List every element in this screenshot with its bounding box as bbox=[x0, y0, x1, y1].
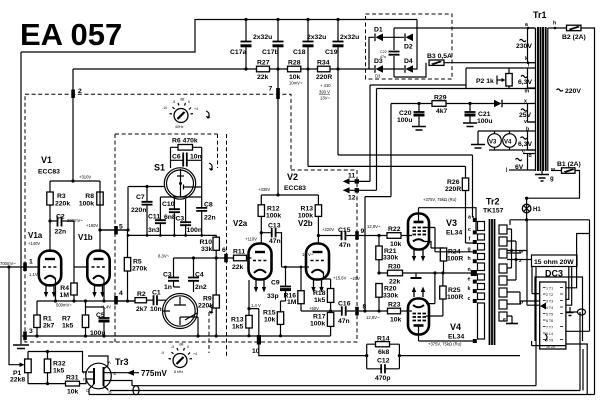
svg-text:Tr1: Tr1 bbox=[533, 10, 547, 20]
wire h to fuse B2 bbox=[548, 27, 567, 29]
svg-text:C18: C18 bbox=[293, 49, 306, 56]
svg-text:V4: V4 bbox=[504, 140, 512, 146]
svg-text:+15,6V: +15,6V bbox=[333, 276, 347, 281]
svg-text:1k5: 1k5 bbox=[314, 297, 326, 304]
ground heater bbox=[477, 131, 479, 144]
svg-text:-9: -9 bbox=[161, 351, 164, 355]
connector DC3 bbox=[540, 282, 566, 349]
rectifier dashed box bbox=[366, 14, 453, 79]
capacitor C17a bbox=[245, 20, 247, 70]
wire y220 row bbox=[510, 220, 590, 225]
svg-text:2k7: 2k7 bbox=[136, 306, 148, 313]
wire anode supply row bbox=[338, 69, 473, 155]
jack circle bbox=[578, 309, 586, 315]
pentode V4 inverted bbox=[408, 299, 429, 335]
resistor R21 bbox=[376, 246, 382, 260]
svg-text:220k: 220k bbox=[198, 303, 213, 310]
svg-text:R13: R13 bbox=[301, 206, 314, 213]
secondary ground e bbox=[511, 316, 513, 323]
heater arrows V1a bbox=[46, 286, 54, 293]
svg-text:h: h bbox=[468, 256, 471, 262]
svg-text:~20V: ~20V bbox=[350, 276, 360, 281]
svg-text:R7: R7 bbox=[62, 316, 71, 323]
resistor R26 bbox=[462, 178, 468, 191]
svg-text:2x32u: 2x32u bbox=[307, 34, 326, 41]
heater arrows V1b bbox=[95, 286, 103, 293]
wire C2 to V1b grid bbox=[74, 221, 87, 283]
svg-text:+335V: +335V bbox=[258, 187, 270, 192]
svg-text:C13: C13 bbox=[268, 223, 281, 230]
svg-text:10k: 10k bbox=[264, 317, 276, 324]
svg-text:C21: C21 bbox=[478, 111, 491, 118]
svg-text:C19: C19 bbox=[325, 49, 338, 56]
svg-text:R13: R13 bbox=[231, 317, 244, 324]
capacitor C21 bbox=[469, 104, 471, 123]
heater V4 circle bbox=[503, 134, 517, 148]
svg-text:47n: 47n bbox=[338, 318, 350, 325]
svg-text:12,8V~: 12,8V~ bbox=[367, 224, 381, 229]
svg-text:22k: 22k bbox=[232, 264, 244, 271]
resistor R16 bbox=[298, 291, 304, 304]
svg-text:S1: S1 bbox=[154, 163, 165, 173]
Tr2 primary winding bbox=[478, 222, 485, 340]
mech hook S1 bbox=[209, 163, 213, 170]
svg-text:1k5: 1k5 bbox=[62, 323, 74, 330]
resistor R22 bbox=[387, 233, 401, 239]
wire P1 top row bbox=[28, 352, 86, 373]
svg-text:R32: R32 bbox=[53, 361, 66, 368]
svg-text:EL34: EL34 bbox=[446, 230, 462, 237]
resistor R24 bbox=[440, 248, 446, 261]
svg-text:220R: 220R bbox=[445, 186, 461, 193]
svg-text:220n: 220n bbox=[131, 207, 147, 214]
svg-text:R1: R1 bbox=[43, 316, 52, 323]
svg-text:V3: V3 bbox=[489, 140, 497, 146]
wire V1b anode node5 bbox=[100, 192, 128, 251]
capacitor C2 bbox=[58, 217, 62, 227]
DC3 left wires bbox=[521, 220, 540, 305]
svg-text:R29: R29 bbox=[434, 95, 447, 102]
wire tone bottom rail bbox=[128, 235, 216, 237]
wire R5 bottom to cathode rail bbox=[118, 300, 135, 302]
svg-text:C9: C9 bbox=[271, 280, 280, 287]
svg-text:100k: 100k bbox=[310, 321, 325, 328]
svg-text:R8: R8 bbox=[85, 193, 94, 200]
svg-text:1k5: 1k5 bbox=[53, 368, 65, 375]
svg-text:+4: +4 bbox=[194, 107, 198, 111]
svg-text:V1: V1 bbox=[41, 155, 52, 165]
capacitor C22 bridge bbox=[389, 52, 400, 55]
svg-text:7: 7 bbox=[269, 86, 273, 93]
diode 25V rectifier bbox=[494, 100, 502, 108]
pentode V3 bbox=[408, 214, 429, 250]
svg-text:8: 8 bbox=[363, 304, 367, 311]
svg-text:V4: V4 bbox=[450, 322, 461, 332]
svg-text:C2: C2 bbox=[56, 214, 65, 221]
svg-text:22n: 22n bbox=[204, 215, 216, 222]
svg-text:9: 9 bbox=[361, 228, 365, 235]
svg-text:8 kHz: 8 kHz bbox=[174, 370, 183, 374]
diode D2 bbox=[406, 34, 414, 42]
svg-text:220k: 220k bbox=[55, 201, 70, 208]
svg-text:R3: R3 bbox=[57, 193, 66, 200]
svg-text:v: v bbox=[524, 119, 527, 125]
heater V3 circle bbox=[488, 134, 502, 148]
ground below C20 bbox=[412, 127, 426, 131]
resistor R31 bbox=[66, 381, 80, 386]
ground below C21 bbox=[463, 123, 477, 127]
svg-text:h: h bbox=[553, 21, 556, 27]
wire mains right edge bbox=[581, 28, 595, 395]
svg-text:11: 11 bbox=[348, 173, 355, 180]
heater arrows V2a bbox=[256, 280, 264, 288]
resistor R4 bbox=[71, 283, 77, 295]
node 10 bbox=[257, 335, 261, 345]
svg-text:230V: 230V bbox=[516, 43, 532, 50]
svg-text:a: a bbox=[468, 215, 471, 221]
potentiometer P1 bbox=[25, 359, 32, 373]
capacitor C19 bbox=[337, 20, 339, 70]
svg-text:47n: 47n bbox=[269, 238, 281, 245]
wire C9 R15 join bbox=[281, 300, 286, 302]
svg-text:R25: R25 bbox=[448, 287, 461, 294]
svg-text:V2a: V2a bbox=[233, 219, 248, 228]
svg-text:e: e bbox=[468, 277, 471, 283]
svg-text:+4: +4 bbox=[193, 352, 197, 356]
wire h tap junction bbox=[471, 270, 477, 276]
svg-text:Tr3: Tr3 bbox=[115, 357, 129, 367]
svg-text:ECC83: ECC83 bbox=[38, 169, 60, 176]
mains label bbox=[557, 89, 563, 91]
resistor R29 bbox=[432, 101, 446, 107]
svg-text:5 T5: 5 T5 bbox=[546, 313, 553, 317]
svg-text:D4: D4 bbox=[404, 58, 413, 65]
svg-text:D1: D1 bbox=[374, 27, 383, 34]
resistor R32 bbox=[44, 359, 50, 373]
svg-text:C10: C10 bbox=[162, 201, 175, 208]
svg-text:100n: 100n bbox=[187, 227, 203, 234]
wire Tr3 top A bbox=[88, 356, 108, 366]
treble knob bbox=[173, 354, 187, 368]
svg-text:R15: R15 bbox=[263, 310, 276, 317]
svg-text:ECC83: ECC83 bbox=[284, 185, 306, 192]
wire V2b anode C15 tap bbox=[318, 216, 341, 243]
node 9 bbox=[355, 231, 359, 240]
bus risers right bbox=[536, 267, 583, 391]
svg-text:+375V, 75kΩ (Ru): +375V, 75kΩ (Ru) bbox=[423, 197, 457, 202]
bass knob bbox=[174, 109, 188, 123]
svg-text:3 T3: 3 T3 bbox=[546, 300, 553, 304]
svg-text:100k: 100k bbox=[266, 213, 281, 220]
svg-text:33k: 33k bbox=[201, 246, 213, 253]
svg-text:6k8: 6k8 bbox=[378, 349, 390, 356]
svg-text:V1a: V1a bbox=[28, 231, 43, 240]
wire bridge right node bbox=[413, 20, 417, 70]
svg-text:270k: 270k bbox=[132, 266, 147, 273]
diode D3 bbox=[376, 65, 384, 73]
transformer Tr3 bbox=[86, 363, 112, 389]
svg-text:f: f bbox=[469, 237, 471, 243]
svg-text:C22: C22 bbox=[380, 50, 387, 54]
wire x row 25V supply bbox=[391, 103, 536, 105]
svg-text:-5: -5 bbox=[171, 345, 174, 349]
wire R30 row bbox=[379, 272, 473, 274]
wire fuse B3 to k bbox=[444, 62, 536, 64]
triode V2b bbox=[306, 244, 329, 280]
wire V1a anode / C2 row bbox=[50, 205, 74, 251]
svg-text:D3: D3 bbox=[375, 74, 381, 79]
svg-text:+160V: +160V bbox=[86, 223, 98, 228]
svg-text:4k7: 4k7 bbox=[436, 108, 448, 115]
resistor R7 bbox=[82, 315, 88, 328]
svg-text:P2 1k: P2 1k bbox=[476, 78, 494, 85]
svg-text:C5: C5 bbox=[96, 312, 105, 319]
svg-text:4 T4: 4 T4 bbox=[546, 306, 553, 310]
svg-text:6n8: 6n8 bbox=[164, 214, 176, 221]
svg-text:12: 12 bbox=[348, 195, 356, 202]
svg-text:n: n bbox=[468, 267, 471, 273]
svg-text:-5: -5 bbox=[172, 100, 175, 104]
svg-text:R20: R20 bbox=[384, 286, 397, 293]
junction dots B+ rail bbox=[244, 67, 247, 70]
svg-text:g: g bbox=[550, 176, 554, 182]
mech link dash treble bbox=[208, 312, 210, 353]
wire B1 loop to H1 bbox=[527, 171, 580, 199]
wire ground top rail bbox=[21, 20, 417, 53]
svg-text:TK157: TK157 bbox=[483, 208, 504, 215]
svg-text:C20: C20 bbox=[399, 110, 412, 117]
wire bus A from Tr3 bbox=[104, 381, 133, 386]
Tr2 taps bbox=[468, 215, 477, 344]
wire S1 lower row bbox=[160, 197, 201, 220]
svg-text:R11: R11 bbox=[233, 249, 245, 256]
svg-text:10mV~: 10mV~ bbox=[289, 81, 303, 86]
wire bus lines bbox=[89, 386, 595, 395]
wire bridge left node bbox=[369, 37, 374, 69]
svg-text:R26: R26 bbox=[447, 179, 460, 186]
svg-text:15 ohm 20W: 15 ohm 20W bbox=[534, 259, 574, 266]
input drop to P1 bbox=[9, 267, 20, 365]
svg-text:R5: R5 bbox=[133, 259, 142, 266]
wire node9 to R22 bbox=[359, 235, 387, 237]
svg-text:8,3V~: 8,3V~ bbox=[158, 254, 170, 259]
svg-text:H1: H1 bbox=[533, 207, 541, 213]
bus loop symbol bbox=[133, 386, 139, 395]
switch S2 bbox=[163, 294, 198, 329]
wire l row bbox=[370, 68, 536, 89]
svg-text:7 T7: 7 T7 bbox=[546, 326, 553, 330]
svg-text:k: k bbox=[525, 56, 528, 62]
heater arrows V2b bbox=[314, 280, 322, 288]
svg-text:22n: 22n bbox=[55, 229, 67, 236]
svg-text:R9: R9 bbox=[203, 296, 212, 303]
svg-text:10k: 10k bbox=[390, 241, 402, 248]
capacitor C1 bbox=[147, 299, 154, 301]
svg-text:R30: R30 bbox=[388, 264, 401, 271]
svg-text:14 V~: 14 V~ bbox=[302, 252, 314, 257]
svg-text:R18: R18 bbox=[313, 290, 326, 297]
speaker box 15ohm bbox=[532, 255, 578, 267]
resistor R28 bbox=[288, 66, 301, 72]
svg-text:100R: 100R bbox=[447, 256, 463, 263]
wire heater row c bbox=[489, 149, 536, 151]
svg-text:12,8V~: 12,8V~ bbox=[366, 315, 380, 320]
svg-text:33p: 33p bbox=[267, 293, 279, 300]
junction dots top rail bbox=[244, 18, 247, 21]
node 5 bbox=[114, 226, 118, 235]
svg-text:E: E bbox=[114, 371, 117, 376]
svg-text:C17b: C17b bbox=[262, 49, 279, 56]
svg-text:Tr2: Tr2 bbox=[486, 197, 500, 207]
svg-text:1,4 V: 1,4 V bbox=[251, 303, 261, 308]
svg-text:13V~: 13V~ bbox=[320, 96, 330, 101]
lamp H1 bbox=[526, 198, 528, 220]
svg-text:200mV~: 200mV~ bbox=[67, 218, 83, 223]
svg-text:3: 3 bbox=[29, 328, 33, 335]
resistor R20 bbox=[376, 284, 382, 298]
svg-text:V2b: V2b bbox=[298, 219, 313, 228]
svg-text:25V: 25V bbox=[519, 112, 532, 119]
wire V2 supply split bbox=[261, 195, 318, 205]
resistor R14 bbox=[376, 342, 390, 347]
svg-text:22k8: 22k8 bbox=[10, 377, 25, 384]
mech hook S2 bbox=[209, 306, 213, 313]
wire V3 anode row bbox=[419, 208, 477, 233]
Tr2 core bbox=[490, 219, 495, 345]
svg-text:+50V: +50V bbox=[309, 306, 319, 311]
fuse B2 bbox=[567, 25, 582, 31]
svg-text:40Hz: 40Hz bbox=[175, 125, 184, 129]
svg-text:1M: 1M bbox=[287, 299, 297, 306]
svg-text:220V: 220V bbox=[565, 88, 581, 95]
svg-text:1M: 1M bbox=[60, 292, 70, 299]
svg-text:V1b: V1b bbox=[78, 233, 93, 242]
svg-text:-10: -10 bbox=[162, 106, 167, 110]
ground g below core bbox=[541, 171, 543, 174]
diode D4 bbox=[406, 65, 414, 73]
svg-text:R22: R22 bbox=[388, 226, 401, 233]
svg-text:R31: R31 bbox=[66, 375, 79, 382]
svg-text:500mV~: 500mV~ bbox=[56, 303, 72, 308]
svg-text:2x32u: 2x32u bbox=[253, 34, 272, 41]
svg-text:R23: R23 bbox=[388, 302, 401, 309]
svg-text:V3: V3 bbox=[446, 218, 457, 228]
svg-text:47n: 47n bbox=[380, 55, 386, 59]
triode V1a bbox=[39, 251, 61, 286]
wire left ground drop bbox=[20, 52, 22, 344]
resistor R2 bbox=[135, 298, 147, 303]
svg-text:100k: 100k bbox=[79, 201, 94, 208]
wire node8 row to R23 bbox=[347, 310, 388, 312]
wire B+ rail bbox=[73, 68, 369, 70]
svg-text:D2: D2 bbox=[404, 44, 413, 51]
svg-text:393 V: 393 V bbox=[319, 90, 330, 95]
svg-text:b: b bbox=[526, 127, 529, 133]
fuse B3 bbox=[429, 60, 444, 65]
svg-text:C15: C15 bbox=[338, 227, 351, 234]
resistor R8 bbox=[97, 192, 103, 205]
svg-text:10n: 10n bbox=[150, 306, 162, 313]
cathode tie bar bbox=[415, 273, 417, 278]
svg-text:700mV~: 700mV~ bbox=[0, 261, 16, 266]
svg-text:6,3V: 6,3V bbox=[518, 79, 532, 86]
wire AC bottom to fuse B3 bbox=[394, 63, 426, 77]
svg-text:+310V: +310V bbox=[79, 175, 91, 180]
svg-text:c: c bbox=[468, 227, 471, 233]
Tr1 winding left edge bbox=[535, 28, 537, 171]
svg-text:+ 410: + 410 bbox=[320, 83, 331, 88]
svg-text:+220V: +220V bbox=[322, 227, 334, 232]
svg-text:4: 4 bbox=[119, 290, 123, 297]
svg-text:0: 0 bbox=[187, 345, 189, 349]
resistor R15 bbox=[277, 312, 283, 325]
wire C13 to V2b grid bbox=[276, 233, 309, 267]
ground rail node 3 bbox=[22, 326, 331, 336]
svg-text:R10: R10 bbox=[200, 239, 213, 246]
tone dashed box bbox=[115, 134, 227, 356]
svg-text:2x32u: 2x32u bbox=[340, 34, 359, 41]
svg-text:6,3V: 6,3V bbox=[518, 141, 532, 148]
svg-text:R14: R14 bbox=[377, 336, 390, 343]
wire node5 to tone box bbox=[100, 187, 164, 231]
resistor R27 bbox=[257, 66, 270, 72]
svg-text:k: k bbox=[468, 286, 471, 292]
resistor R13 bbox=[315, 205, 321, 217]
svg-text:D3: D3 bbox=[374, 58, 383, 65]
svg-text:C6: C6 bbox=[172, 154, 181, 161]
DC3 right wires bbox=[566, 220, 590, 395]
svg-text:10k: 10k bbox=[390, 317, 402, 324]
wire heater row b bbox=[478, 130, 536, 132]
feedback network R14 C12 bbox=[365, 354, 368, 357]
svg-text:2k7: 2k7 bbox=[43, 323, 55, 330]
wire bridge row1 bbox=[369, 37, 404, 69]
svg-text:dB: dB bbox=[180, 98, 185, 102]
svg-text:C12: C12 bbox=[377, 358, 390, 365]
resistor R18 bbox=[327, 289, 333, 303]
svg-text:6 T6: 6 T6 bbox=[546, 319, 553, 323]
svg-text:C16: C16 bbox=[338, 301, 351, 308]
svg-text:100u: 100u bbox=[397, 117, 413, 124]
triode V1b bbox=[87, 251, 109, 286]
resistor R12 bbox=[258, 205, 264, 217]
svg-text:100R: 100R bbox=[447, 294, 463, 301]
resistor R30 bbox=[388, 270, 403, 276]
775mV arrow bbox=[114, 372, 139, 374]
wire P1 bottom row bbox=[28, 383, 66, 385]
resistor R13k bbox=[246, 315, 252, 328]
svg-text:EA 057: EA 057 bbox=[20, 17, 122, 52]
svg-text:2n2: 2n2 bbox=[195, 284, 207, 291]
svg-text:R2: R2 bbox=[137, 291, 146, 298]
jack ground bbox=[569, 307, 571, 312]
resistor R11 bbox=[234, 255, 247, 261]
svg-text:+140V: +140V bbox=[28, 241, 40, 246]
V2b cathode to R18 bbox=[324, 273, 331, 279]
svg-text:C1: C1 bbox=[152, 290, 161, 297]
wire V1 supply drop bbox=[50, 69, 100, 192]
ground left bbox=[13, 345, 29, 349]
svg-text:470p: 470p bbox=[375, 375, 391, 382]
Tr2 secondary links bbox=[507, 229, 521, 316]
resistor R3 bbox=[47, 192, 53, 205]
wire g tap from V3 screen bbox=[435, 251, 473, 253]
svg-text:1n: 1n bbox=[164, 284, 172, 291]
wire V2a anode / C13 tap bbox=[261, 216, 271, 243]
node 2 bbox=[71, 90, 75, 99]
svg-text:2 T2: 2 T2 bbox=[546, 293, 553, 297]
resistor R17 bbox=[327, 313, 333, 327]
